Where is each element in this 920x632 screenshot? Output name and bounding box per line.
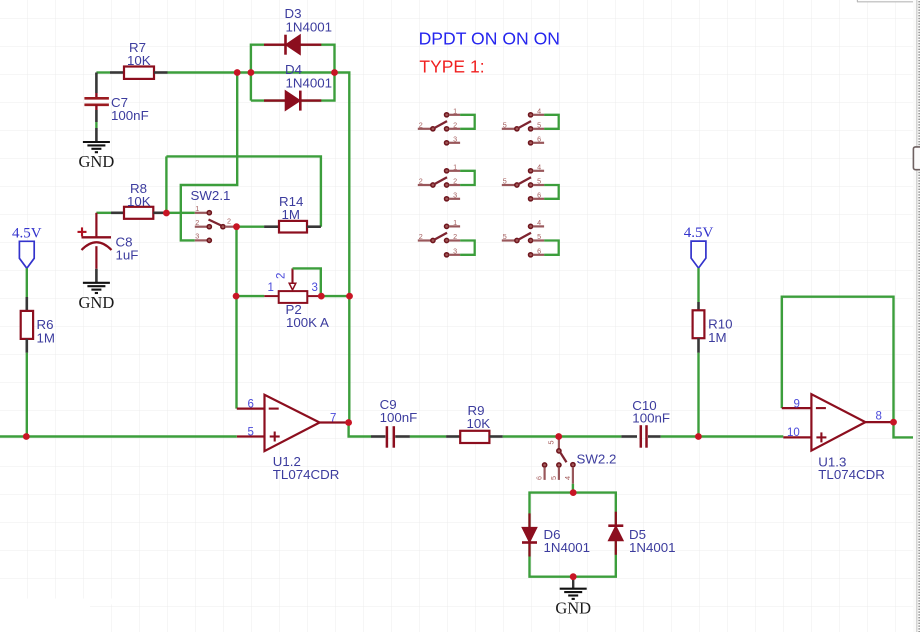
capacitor C8 1uF polarized <box>78 213 139 269</box>
wire C9 to R9 <box>410 435 446 437</box>
svg-text:DPDT ON ON ON: DPDT ON ON ON <box>419 29 560 49</box>
capacitor C9 100nF <box>380 397 418 448</box>
wire diode block to main vertical <box>335 73 350 297</box>
svg-text:1: 1 <box>453 106 457 115</box>
svg-text:2: 2 <box>195 218 199 227</box>
switch position diagram row1 pole B <box>502 106 559 145</box>
wire C8 lower lead <box>95 269 98 283</box>
ground GND under C7 <box>79 142 115 171</box>
wire R14 left black lead <box>264 225 279 228</box>
svg-text:1: 1 <box>453 162 457 171</box>
svg-text:GND: GND <box>79 293 115 312</box>
svg-text:1: 1 <box>453 218 457 227</box>
node junction P2 pin1 <box>233 293 240 300</box>
svg-text:1: 1 <box>268 282 274 294</box>
ground GND under diode box <box>555 577 591 618</box>
svg-text:1N4001: 1N4001 <box>629 540 676 555</box>
switch position diagram row2 pole A <box>418 162 475 201</box>
svg-text:1N4001: 1N4001 <box>286 19 333 34</box>
switch position diagram row3 pole A <box>418 218 475 257</box>
wire diode block loop <box>251 45 335 101</box>
wire R10 lower black lead <box>697 338 700 353</box>
wire U1.3 feedback loop <box>782 297 894 422</box>
wire R14 right black lead <box>307 225 321 228</box>
svg-text:5: 5 <box>503 232 507 241</box>
resistor R10 1M <box>693 310 733 345</box>
node junction R8 output <box>163 210 170 217</box>
text DPDT ON ON ON <box>419 29 560 49</box>
wire R9 left black lead <box>446 435 460 438</box>
svg-text:SW2.1: SW2.1 <box>191 188 231 203</box>
svg-text:5: 5 <box>503 120 507 129</box>
op-amp U1.2 TL074CDR <box>237 395 347 482</box>
wire main line left segment <box>0 435 237 437</box>
svg-text:SW2.2: SW2.2 <box>577 452 617 467</box>
svg-text:2: 2 <box>227 217 231 226</box>
svg-text:TL074CDR: TL074CDR <box>818 467 885 482</box>
node junction right vertical at P2 <box>346 293 353 300</box>
svg-text:5: 5 <box>537 177 541 186</box>
svg-text:GND: GND <box>79 152 115 171</box>
svg-text:2: 2 <box>419 120 423 129</box>
wire R7 net top <box>96 71 110 73</box>
resistor R7 10K <box>124 40 154 79</box>
svg-text:4: 4 <box>563 476 572 480</box>
svg-text:6: 6 <box>535 476 544 480</box>
power flag 4.5V right <box>684 225 714 268</box>
resistor R8 10K <box>124 181 153 219</box>
wire SW common to R14 <box>237 225 265 227</box>
svg-text:5: 5 <box>549 476 558 480</box>
svg-text:2: 2 <box>453 232 457 241</box>
wire P2 pin1 to left vertical <box>236 295 264 297</box>
node junction diode box bottom <box>570 573 577 580</box>
diode D3 1N4001 <box>264 6 332 55</box>
svg-text:5: 5 <box>537 120 541 129</box>
wire main line to U1.3 <box>698 435 783 437</box>
node junction SW2.2 common <box>555 433 562 440</box>
switch SW2.1 pole A <box>191 188 237 242</box>
node junction diode-block right <box>331 69 338 76</box>
wire diode box loop <box>530 493 616 577</box>
svg-text:2: 2 <box>453 120 457 129</box>
svg-text:GND: GND <box>555 599 591 618</box>
svg-text:100nF: 100nF <box>632 411 670 426</box>
switch SW2.2 pole B <box>535 439 617 484</box>
svg-text:7: 7 <box>330 412 336 424</box>
wire P2 pin3 to right vertical <box>321 295 349 297</box>
svg-text:4.5V: 4.5V <box>684 225 714 241</box>
wire R8 junction vertical <box>165 156 167 213</box>
wire C9 left black lead <box>371 435 385 438</box>
wire R8 left black lead <box>111 212 124 215</box>
svg-text:10K: 10K <box>127 53 151 68</box>
capacitor C10 100nF <box>632 398 670 448</box>
node junction diode box top <box>570 489 577 496</box>
node junction P2 pin3 <box>318 293 325 300</box>
resistor R9 10K <box>460 403 490 443</box>
diode D5 1N4001 <box>608 512 675 555</box>
svg-text:6: 6 <box>537 190 541 199</box>
wire C8 to R8 corner <box>96 212 111 214</box>
node junction R10 bottom <box>695 433 702 440</box>
wire C7 upper lead <box>95 73 98 98</box>
svg-text:1M: 1M <box>708 330 726 345</box>
node junction diode-block left <box>248 69 255 76</box>
diode D6 1N4001 <box>522 513 590 556</box>
wire C10 left black lead <box>621 435 637 438</box>
node junction SW2.1 common <box>233 223 240 230</box>
switch position diagram row2 pole B <box>502 162 559 201</box>
svg-text:10K: 10K <box>127 194 151 209</box>
svg-text:8: 8 <box>876 411 882 423</box>
switch position diagram row3 pole B <box>502 218 559 257</box>
wire P2 down to U1.2 pin6 <box>235 296 237 409</box>
svg-text:5: 5 <box>537 232 541 241</box>
svg-text:100nF: 100nF <box>111 108 149 123</box>
svg-text:3: 3 <box>453 134 457 143</box>
svg-text:4: 4 <box>537 218 541 227</box>
wire R6 lower black lead <box>25 339 28 353</box>
svg-text:1N4001: 1N4001 <box>544 540 591 555</box>
wire R7 right black lead <box>154 71 168 74</box>
svg-text:2: 2 <box>453 177 457 186</box>
wire R7 left black lead <box>110 71 124 74</box>
node junction U1.3 output <box>890 419 897 426</box>
svg-text:6: 6 <box>537 134 541 143</box>
wire R9 right black lead <box>489 435 502 438</box>
svg-text:3: 3 <box>453 190 457 199</box>
resistor R14 1M <box>279 194 307 233</box>
wire SW pin1 feed vertical <box>181 73 237 241</box>
svg-text:10: 10 <box>787 427 800 439</box>
wire C10 right black lead <box>648 435 661 438</box>
svg-text:6: 6 <box>248 399 254 411</box>
wire U1.3 output to right edge <box>894 422 920 437</box>
wire C10 to R10 junction <box>661 435 699 437</box>
diode D4 1N4001 <box>264 62 332 110</box>
wire R8 junction to SW2.1 pin1 <box>166 212 194 214</box>
svg-text:1: 1 <box>195 204 199 213</box>
wire U1.2 output down to main line <box>349 423 371 437</box>
svg-text:4.5V: 4.5V <box>12 225 42 241</box>
svg-text:2: 2 <box>419 177 423 186</box>
svg-text:10K: 10K <box>467 416 491 431</box>
svg-text:5: 5 <box>248 426 254 438</box>
wire 4.5V to R6 <box>26 268 28 297</box>
svg-text:6: 6 <box>537 246 541 255</box>
node junction U1.2 output <box>345 419 352 426</box>
wire right vertical to U1.2 output <box>348 296 350 422</box>
svg-text:TL074CDR: TL074CDR <box>273 467 340 482</box>
op-amp U1.3 TL074CDR <box>782 394 892 482</box>
svg-text:2: 2 <box>419 232 423 241</box>
svg-text:3: 3 <box>195 232 199 241</box>
ground GND under C8 <box>79 283 115 312</box>
wire 4.5V to R10 <box>697 268 699 302</box>
ui scrollbar right <box>913 0 920 632</box>
svg-text:1M: 1M <box>282 207 300 222</box>
wire SW2.2 pin4 to diode box <box>572 484 574 493</box>
node junction R6 bottom <box>23 433 30 440</box>
wire P2 wiper to pin3 <box>293 268 321 296</box>
wire R6 to main line <box>26 353 28 437</box>
potentiometer P2 100K A <box>264 268 329 330</box>
ui panel edge top-right <box>857 0 920 2</box>
svg-text:2: 2 <box>276 273 288 279</box>
node junction wire-SW2.1 vertical <box>234 69 241 76</box>
ui panel overlay bottom-left <box>0 599 112 632</box>
wire C9 right black lead <box>395 435 410 438</box>
svg-text:4: 4 <box>537 162 541 171</box>
wire SW common down to P2 <box>235 227 237 296</box>
svg-text:TYPE 1:: TYPE 1: <box>419 56 484 76</box>
svg-text:1M: 1M <box>37 330 55 345</box>
svg-text:3: 3 <box>312 282 318 294</box>
svg-text:100nF: 100nF <box>380 410 418 425</box>
wire R6 upper black lead <box>25 297 28 311</box>
capacitor C7 100nF <box>84 95 148 123</box>
svg-text:9: 9 <box>794 399 800 411</box>
svg-text:3: 3 <box>453 246 457 255</box>
power flag 4.5V left <box>12 225 42 268</box>
switch position diagram row1 pole A <box>418 106 475 145</box>
svg-text:1N4001: 1N4001 <box>286 76 333 91</box>
wire R7 output to diode block <box>168 71 335 73</box>
wire R8 right black lead <box>153 212 166 215</box>
wire SW2.2 to C10 <box>559 435 622 437</box>
wire C7 lower lead <box>95 105 97 142</box>
svg-text:100K A: 100K A <box>286 315 329 330</box>
wire R14 top link <box>166 156 321 226</box>
wire R10 to main line <box>697 353 699 437</box>
svg-text:1uF: 1uF <box>116 248 139 263</box>
wire R9 to SW2.2 <box>503 435 559 437</box>
wire R10 upper black lead <box>697 302 700 310</box>
svg-text:5: 5 <box>503 177 507 186</box>
resistor R6 1M <box>21 311 55 345</box>
text TYPE 1: <box>419 56 484 76</box>
svg-text:4: 4 <box>537 106 541 115</box>
svg-text:5: 5 <box>547 441 556 445</box>
